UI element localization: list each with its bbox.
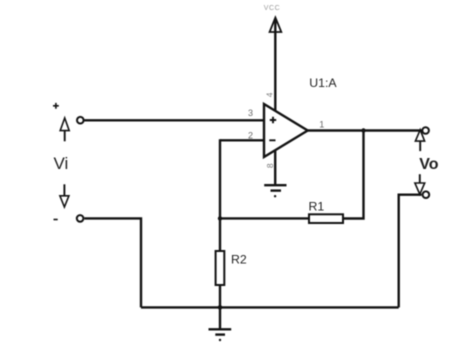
wire R2 bottom to ground node (219, 285, 221, 307)
svg-text:Vi: Vi (54, 154, 69, 173)
op-amp U1:A body (264, 104, 308, 157)
svg-text:VCC: VCC (264, 5, 281, 12)
wire R2 top (219, 218, 221, 251)
op-amp non-inverting input marker + (270, 117, 276, 123)
wire output pin 1 to Vo+ terminal (308, 129, 422, 131)
label - (input polarity) (54, 219, 58, 221)
wire VCC power to op-amp pin 4 (274, 19, 276, 115)
resistor R2 (216, 251, 225, 285)
terminal Vo- output (423, 191, 430, 198)
wire Vo- terminal to bottom rail (399, 195, 422, 308)
power symbol VCC arrow (270, 18, 282, 33)
wire bottom rail (141, 306, 399, 308)
arrow down output polarity (415, 174, 425, 194)
wire op-amp pin 3 input (85, 119, 265, 121)
svg-text:3: 3 (248, 108, 253, 118)
arrow up input polarity (60, 118, 69, 141)
ground symbol bottom (209, 329, 232, 341)
junction feedback node (218, 216, 222, 220)
resistor R1 (309, 214, 343, 223)
terminal + input (77, 117, 84, 124)
wire - terminal to bottom rail (84, 218, 141, 307)
op-amp inverting input marker - (269, 139, 275, 141)
arrow down input polarity (60, 184, 69, 207)
wire op-amp pin 8 to ground (274, 147, 276, 185)
svg-text:2: 2 (248, 131, 253, 141)
terminal - input (77, 215, 84, 222)
terminal Vo+ output (422, 127, 429, 134)
svg-text:8: 8 (265, 163, 275, 168)
svg-text:R2: R2 (231, 253, 247, 267)
junction ground node (218, 305, 223, 310)
wire pin 2 down to feedback node (219, 139, 221, 218)
wire feedback from R1 up to output node (343, 131, 364, 219)
junction output node (361, 128, 365, 132)
svg-text:R1: R1 (309, 199, 325, 213)
wire op-amp pin 2 input horizontal (220, 139, 264, 141)
wire feedback node to R1 (220, 217, 309, 219)
svg-text:1: 1 (319, 120, 324, 130)
svg-text:U1:A: U1:A (309, 76, 337, 90)
label + (input polarity) (53, 103, 59, 109)
ground symbol below op-amp (264, 185, 286, 197)
svg-text:Vo: Vo (419, 156, 438, 173)
svg-text:4: 4 (265, 92, 275, 97)
arrow up output polarity (415, 130, 424, 151)
wire ground node down to ground symbol (219, 307, 221, 329)
